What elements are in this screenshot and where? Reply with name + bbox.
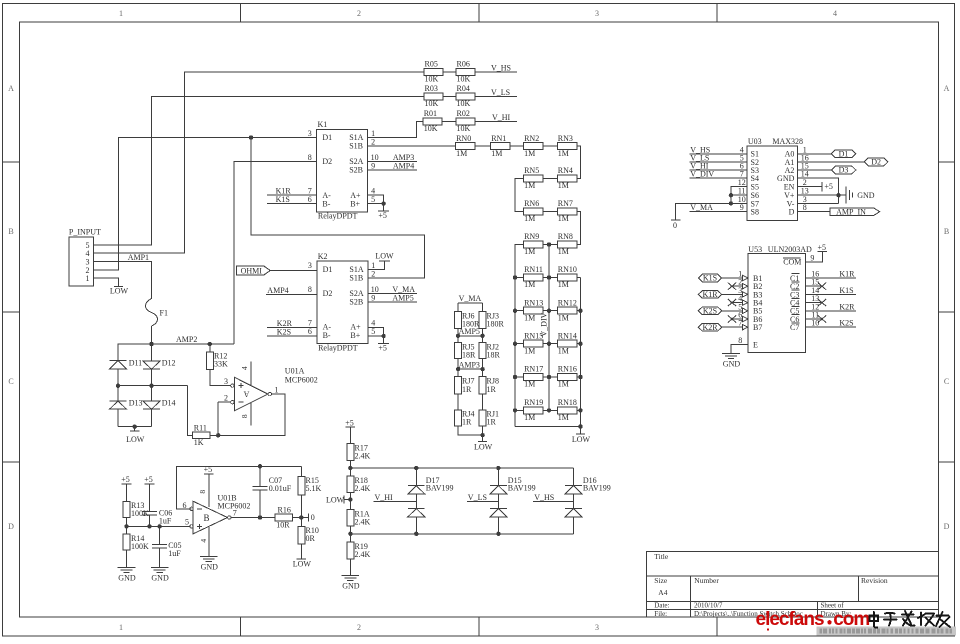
resistor RJ3 <box>479 311 486 328</box>
svg-text:RN6: RN6 <box>524 199 539 208</box>
svg-text:RN11: RN11 <box>524 265 543 274</box>
svg-text:2: 2 <box>371 138 375 147</box>
diode D13 <box>110 400 127 402</box>
svg-text:2: 2 <box>371 269 375 278</box>
U01B minus sign <box>197 508 202 510</box>
no-connect stub C4 <box>806 302 822 304</box>
wire K1 S1B to RN0 <box>368 145 456 147</box>
fuse F1 <box>146 299 158 327</box>
svg-text:1M: 1M <box>524 181 535 190</box>
svg-text:10R: 10R <box>276 520 290 529</box>
wire R11 feedback vertical <box>217 402 219 435</box>
wire AMP2 to R12 <box>209 344 211 352</box>
wire EN to +5 <box>798 186 823 188</box>
net wire K1R from C1 <box>806 277 856 279</box>
resistor RJ2 <box>479 343 486 359</box>
wire R06 to V_HS <box>475 71 517 73</box>
wire GND pin to V- strap <box>798 178 839 203</box>
U01A power stub bottom pin 8 <box>250 403 252 426</box>
wire R05-R06 <box>443 71 456 73</box>
U01B power bottom to GND <box>208 527 210 556</box>
junction left rail RN15 <box>513 342 517 346</box>
junction mid rail RN19 <box>547 408 551 412</box>
svg-text:K2S: K2S <box>277 327 291 336</box>
svg-text:LOW: LOW <box>110 287 129 296</box>
svg-text:1uF: 1uF <box>159 516 172 525</box>
junction R13/R14 <box>124 524 128 528</box>
net wire V_HS at D16 <box>533 500 573 502</box>
svg-text:1M: 1M <box>558 380 569 389</box>
junction LOW tap <box>348 497 352 501</box>
wire RN13-RN12 <box>543 310 557 312</box>
junction at K2 B+ <box>381 334 385 338</box>
wire P_INPUT pin1 to LOW <box>94 278 119 286</box>
wire R14 to GND <box>126 550 128 567</box>
resistor RN15 <box>524 340 544 347</box>
svg-text:AMP5: AMP5 <box>459 327 480 336</box>
diode D14 <box>143 401 160 409</box>
svg-text:RN0: RN0 <box>456 134 471 143</box>
junction RJ bottom <box>480 433 484 437</box>
U01A plus sign <box>238 385 243 387</box>
svg-text:RN15: RN15 <box>524 331 543 340</box>
svg-text:LOW: LOW <box>326 495 345 504</box>
svg-text:+5: +5 <box>378 343 387 352</box>
svg-text:D3: D3 <box>839 166 849 175</box>
svg-text:9: 9 <box>371 162 375 171</box>
ground under C05 <box>151 567 169 569</box>
svg-text:B+: B+ <box>350 199 360 208</box>
resistor RN18 <box>557 407 577 414</box>
svg-text:F1: F1 <box>160 309 168 318</box>
title block <box>647 552 939 617</box>
svg-text:D14: D14 <box>162 399 176 408</box>
svg-text:U53: U53 <box>748 245 762 254</box>
svg-text:RN18: RN18 <box>558 398 577 407</box>
net wire V_MA top bar <box>458 302 483 304</box>
resistor RN9 <box>524 241 544 248</box>
svg-text:5: 5 <box>371 327 375 336</box>
wire K1 S1A to R01 <box>368 121 424 137</box>
clamp top rail <box>350 467 573 469</box>
svg-text:8: 8 <box>240 414 249 418</box>
resistor RJ1 <box>479 410 486 426</box>
svg-text:RN10: RN10 <box>558 265 577 274</box>
capacitor C07 <box>259 466 261 486</box>
svg-text:1: 1 <box>275 385 279 394</box>
U01B output circle pin 7 <box>228 516 231 519</box>
wire +5 to C06 <box>149 484 151 512</box>
wire main to +input <box>127 525 190 527</box>
svg-text:D1: D1 <box>323 265 333 274</box>
junction C07 bottom <box>258 515 262 519</box>
svg-text:File:: File: <box>654 610 667 618</box>
wire R01-R02 <box>442 120 456 122</box>
net wire V_HI at D17 <box>374 500 417 502</box>
wire K2 S2B AMP5 <box>368 301 417 303</box>
svg-text:1M: 1M <box>524 346 535 355</box>
svg-text:B+: B+ <box>350 331 360 340</box>
resistor RN14 <box>557 340 577 347</box>
svg-text:U01A: U01A <box>285 367 305 376</box>
wire AMP2 rail <box>118 343 234 345</box>
svg-text:+5: +5 <box>345 418 354 427</box>
junction AMP5 right <box>480 334 484 338</box>
wire RN6-RN7 <box>543 211 557 213</box>
svg-text:BAV199: BAV199 <box>426 484 454 493</box>
svg-text:V_LS: V_LS <box>468 493 487 502</box>
svg-text:Number: Number <box>694 576 719 585</box>
svg-text:D11: D11 <box>129 358 142 367</box>
svg-text:V_MA: V_MA <box>459 294 482 303</box>
svg-text:GND: GND <box>201 563 219 572</box>
svg-text:2.4K: 2.4K <box>355 452 371 461</box>
wire AMP3 row <box>457 359 459 377</box>
frame column ticks <box>240 4 242 23</box>
svg-text:18R: 18R <box>487 350 501 359</box>
svg-text:D13: D13 <box>129 399 143 408</box>
resistor R16 <box>275 514 293 521</box>
earth ground at U03 <box>839 194 846 196</box>
resistor R1A <box>347 509 354 526</box>
frame row ticks <box>3 161 20 163</box>
junction mid rail RN13 <box>547 309 551 313</box>
svg-text:GND: GND <box>151 574 169 583</box>
wire fuse to AMP2 rail <box>151 326 153 344</box>
no-connect stub B2 <box>731 285 743 287</box>
svg-text:R02: R02 <box>457 109 470 118</box>
U01A input circle + <box>231 384 234 387</box>
svg-text:1M: 1M <box>524 149 535 158</box>
wire RN13 left to rail <box>515 310 524 312</box>
svg-text:GND: GND <box>857 191 875 200</box>
svg-text:0R: 0R <box>306 534 316 543</box>
power port +5 at COM <box>818 251 828 253</box>
svg-text:1M: 1M <box>558 149 569 158</box>
wire diode bottom rail <box>118 426 152 428</box>
wire R1A-R19 <box>349 526 351 542</box>
svg-text:9: 9 <box>371 293 375 302</box>
port OHMI <box>237 266 271 275</box>
wire D to AMP_IN port <box>798 211 831 213</box>
junction right rail <box>578 408 582 412</box>
svg-text:1R: 1R <box>462 418 472 427</box>
svg-text:K2: K2 <box>318 252 328 261</box>
wire A2 to D3 port <box>798 169 832 171</box>
port K2S to B5 <box>698 307 721 315</box>
U01A minus sign <box>238 401 243 403</box>
svg-text:3: 3 <box>595 623 599 632</box>
svg-text:1: 1 <box>119 623 123 632</box>
wire D14 to bottom <box>151 409 153 427</box>
capacitor C05 <box>152 543 167 545</box>
svg-text:1M: 1M <box>558 214 569 223</box>
net wire V_HI to S3 <box>690 169 748 171</box>
no-connect stub B4 <box>731 302 743 304</box>
svg-text:5: 5 <box>185 518 189 527</box>
wire P_INPUT pin5 to R03 row <box>94 97 425 245</box>
svg-text:8: 8 <box>308 285 312 294</box>
junction left rail RN19 <box>513 408 517 412</box>
svg-text:1K: 1K <box>194 438 204 447</box>
wire P_INPUT pin2 to K1 D1 <box>94 138 317 270</box>
resistor R01 <box>423 118 442 125</box>
resistor RN19 <box>524 407 544 414</box>
svg-text:K1S: K1S <box>839 286 853 295</box>
svg-text:K2S: K2S <box>703 306 717 315</box>
svg-text:R04: R04 <box>457 84 470 93</box>
capacitor C06 <box>142 511 157 513</box>
resistor RN10 <box>557 274 577 281</box>
diode D12 <box>143 361 160 369</box>
svg-text:R06: R06 <box>457 60 470 69</box>
ground under R14 <box>118 567 136 569</box>
svg-text:D12: D12 <box>162 358 176 367</box>
junction mid rail RN15 <box>547 342 551 346</box>
svg-text:3: 3 <box>308 261 312 270</box>
svg-text:K1R: K1R <box>839 270 855 279</box>
svg-text:com: com <box>833 609 869 630</box>
svg-text:+5: +5 <box>824 182 833 191</box>
wire R12 to U01A +input <box>210 370 231 386</box>
net wire V_LS to S2 <box>690 161 748 163</box>
wire RN15 left to rail <box>515 343 524 345</box>
wire mid rail to R11 <box>188 386 193 436</box>
junction strap S6 <box>729 193 733 197</box>
svg-text:AMP4: AMP4 <box>267 286 288 295</box>
wire +5 to R17 <box>349 427 351 444</box>
resistor RN6 <box>524 208 544 215</box>
op-amp U01A triangle <box>235 377 268 410</box>
junction AMP3 left <box>456 367 460 371</box>
svg-text:5.1K: 5.1K <box>306 484 322 493</box>
svg-text:+5: +5 <box>144 475 153 484</box>
svg-text:A: A <box>944 84 950 93</box>
resistor R15 <box>300 466 302 476</box>
wire K1 S2A AMP3 <box>368 161 417 163</box>
resistor RJ4 <box>455 410 462 426</box>
wire RN18 right <box>577 409 581 411</box>
svg-text:R16: R16 <box>278 506 291 515</box>
resistor RN7 <box>557 208 577 215</box>
junction AMP2-R12 <box>208 342 212 346</box>
svg-text:1M: 1M <box>524 413 535 422</box>
wire AMP5 row <box>457 329 459 343</box>
junction bottom rail D15 <box>496 532 500 536</box>
junction AMP2-fuse <box>149 342 153 346</box>
svg-text:K1S: K1S <box>276 195 290 204</box>
resistor RN3 <box>557 143 577 150</box>
wire D13 to bottom <box>117 409 119 427</box>
svg-text:RN13: RN13 <box>524 298 543 307</box>
power port 0 right of R16 <box>308 514 310 522</box>
junction V+ strap <box>836 193 840 197</box>
U01A input circle - <box>231 401 234 404</box>
power port LOW under diodes <box>134 427 136 431</box>
svg-text:2.4K: 2.4K <box>355 484 371 493</box>
svg-text:K1: K1 <box>318 120 328 129</box>
svg-text:Title: Title <box>654 552 669 561</box>
resistor RN16 <box>557 374 577 381</box>
svg-text:U03: U03 <box>748 137 762 146</box>
resistor R14 <box>123 534 130 550</box>
wire D11 to mid rail <box>117 369 119 386</box>
wire RN11-RN10 <box>543 277 557 279</box>
junction mid rail row4 <box>547 242 551 246</box>
svg-text:1M: 1M <box>456 149 467 158</box>
svg-text:1M: 1M <box>491 149 502 158</box>
power port LOW under RJ column <box>482 435 484 441</box>
svg-text:2010/10/7: 2010/10/7 <box>694 602 723 610</box>
no-connect stub C6 <box>806 318 822 320</box>
connector P_INPUT <box>69 237 93 286</box>
svg-text:Date:: Date: <box>654 602 669 610</box>
wire mid rail to D13 <box>117 386 119 401</box>
resistor RN5 <box>524 175 544 182</box>
wire K1 D2 to AMP2 vertical <box>234 162 317 345</box>
svg-text:4: 4 <box>240 366 249 370</box>
port D1 <box>831 150 856 158</box>
junction mid rail left <box>116 384 120 388</box>
svg-text:1M: 1M <box>558 280 569 289</box>
junction left rail RN11 <box>513 275 517 279</box>
power port LOW under R10 <box>297 558 306 560</box>
svg-text:1: 1 <box>86 274 90 283</box>
resistor RN2 <box>524 143 544 150</box>
svg-text:10K: 10K <box>425 99 439 108</box>
svg-text:1M: 1M <box>558 247 569 256</box>
wire C06 to main wire <box>149 515 151 527</box>
wire diode mid rail <box>118 385 188 387</box>
diode D17 BAV199 upper <box>415 468 417 486</box>
svg-text:V_DIV: V_DIV <box>690 170 714 179</box>
svg-text:RN1: RN1 <box>491 134 506 143</box>
resistor RJ8 <box>479 377 486 394</box>
svg-text:R05: R05 <box>425 60 438 69</box>
svg-text:100K: 100K <box>131 542 149 551</box>
svg-text:MCP6002: MCP6002 <box>285 375 318 384</box>
wire RN12 right <box>577 310 581 312</box>
svg-text:V_HI: V_HI <box>492 113 511 122</box>
svg-text:K2S: K2S <box>839 319 853 328</box>
wire R19 to GND <box>349 559 351 576</box>
svg-text:8: 8 <box>308 153 312 162</box>
svg-text:1M: 1M <box>558 313 569 322</box>
svg-text:2: 2 <box>357 623 361 632</box>
junction right rail <box>578 342 582 346</box>
gray watermark band <box>817 626 957 635</box>
power port LOW at K2 <box>379 260 390 262</box>
svg-text:C: C <box>944 377 949 386</box>
svg-text:10K: 10K <box>457 99 471 108</box>
svg-text:V_HS: V_HS <box>534 493 554 502</box>
wire RN16 right <box>577 376 581 378</box>
wire RN2-RN3 <box>543 145 557 147</box>
resistor RN17 <box>524 374 544 381</box>
junction R11 right <box>216 433 220 437</box>
relay K2 RelayDPDT <box>317 261 368 344</box>
net wire V_DIV to S4 <box>690 177 748 179</box>
svg-text:E: E <box>753 340 758 349</box>
svg-text:2.4K: 2.4K <box>355 550 371 559</box>
net wire K2R <box>267 327 317 329</box>
svg-text:8: 8 <box>198 490 207 494</box>
svg-text:K1S: K1S <box>703 274 717 283</box>
svg-text:A: A <box>8 84 14 93</box>
svg-text:7: 7 <box>233 509 237 518</box>
wire R13-R14 <box>126 517 128 534</box>
svg-text:RN3: RN3 <box>558 134 573 143</box>
wire D12 to mid rail <box>151 369 153 386</box>
junction C06 <box>147 524 151 528</box>
wire RN9-RN8 <box>543 244 557 246</box>
svg-text:0: 0 <box>673 221 677 230</box>
U01B plus sign <box>197 525 202 527</box>
svg-text:2: 2 <box>357 9 361 18</box>
svg-text:A: A <box>243 390 249 399</box>
svg-text:S2B: S2B <box>349 166 363 175</box>
svg-text:D: D <box>944 522 950 531</box>
junction right rail <box>578 309 582 313</box>
power port 0 under S7 wire <box>671 219 681 221</box>
ground under U53 <box>722 352 740 354</box>
wire R16 to 0 port <box>293 517 309 519</box>
svg-text:R11: R11 <box>194 423 207 432</box>
resistor R17 <box>347 444 354 461</box>
wire S5-S6-S7 strap <box>731 187 747 204</box>
junction RN bottom right <box>578 424 582 428</box>
junction strap S7 <box>729 201 733 205</box>
relay K1 RelayDPDT <box>317 129 368 212</box>
svg-text:LOW: LOW <box>126 435 145 444</box>
svg-text:GND: GND <box>118 574 136 583</box>
diode D17 BAV199 lower <box>415 494 417 509</box>
power port +5 above C06 <box>145 483 155 485</box>
wire K2 S1A to LOW <box>368 261 385 269</box>
svg-text:RN9: RN9 <box>524 232 539 241</box>
power port LOW left of R18 <box>344 499 350 501</box>
ground under R19 <box>342 575 360 577</box>
svg-text:R01: R01 <box>424 109 437 118</box>
resistor R12 <box>206 352 213 370</box>
port K1R to B3 <box>698 291 721 299</box>
wire A0 to D1 port <box>798 153 832 155</box>
junction R15 bottom <box>299 515 303 519</box>
wire U01A -input <box>218 401 230 403</box>
wire RJ bottom rail <box>458 426 483 435</box>
junction clamp top rail <box>348 466 352 470</box>
svg-text:OHMI: OHMI <box>241 266 263 275</box>
svg-text:B-: B- <box>323 331 331 340</box>
wire OHMI to K2 D1 <box>270 270 317 272</box>
svg-text:1M: 1M <box>524 214 535 223</box>
wire P_INPUT pin3 AMP1 to fuse <box>94 261 152 299</box>
junction left rail RN13 <box>513 309 517 313</box>
resistor RN8 <box>557 241 577 248</box>
feedback wire U01B <box>176 466 301 509</box>
driver U53 ULN2003AD <box>748 254 806 353</box>
wire S7 to 0 port <box>676 203 748 219</box>
wire RN3 to RN4 right link <box>577 146 581 178</box>
wire C05 to GND <box>159 548 161 568</box>
wire R18-R1A <box>349 493 351 510</box>
wire RN5-RN4 <box>543 178 557 180</box>
svg-text:1M: 1M <box>524 280 535 289</box>
wire RN7 to RN8 right link <box>577 212 581 245</box>
svg-text:Revision: Revision <box>861 576 888 585</box>
junction mid rail center <box>149 384 153 388</box>
analog switch U03 MAX328 <box>747 146 797 221</box>
